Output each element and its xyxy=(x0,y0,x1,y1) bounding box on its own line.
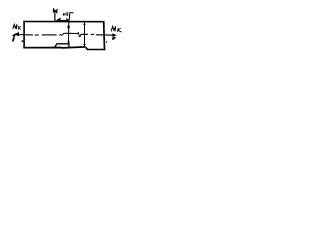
right torque arrow line xyxy=(105,34,114,36)
right end face xyxy=(103,21,106,50)
weld designation text xyxy=(63,12,68,16)
shaft top edge xyxy=(23,21,104,23)
groove dimension arrowhead left xyxy=(55,18,61,21)
left torque arrow line xyxy=(15,34,34,36)
tick near left face xyxy=(22,40,24,42)
diameter dimension arrowhead up xyxy=(83,22,86,25)
weld leader arrowhead onto bead xyxy=(67,41,70,44)
left torque arrowhead 1 xyxy=(14,32,19,36)
left torque arrowhead 2 xyxy=(12,34,16,37)
right torque curved tail xyxy=(112,37,116,40)
groove dimension arrowhead right xyxy=(66,18,70,21)
flag staff xyxy=(54,13,56,22)
break squiggle 2 xyxy=(78,32,81,36)
centerline (axis) xyxy=(35,34,39,36)
weld leader shelf xyxy=(70,12,74,14)
groove width dimension line xyxy=(58,19,68,21)
speck right of face xyxy=(106,41,107,42)
left end face xyxy=(23,21,25,49)
break squiggle 1 xyxy=(59,33,64,35)
weld leader vertical through joint xyxy=(69,13,70,43)
label Mk left xyxy=(13,24,21,29)
diameter dimension arrowhead down xyxy=(83,44,86,47)
label Mk right xyxy=(111,26,121,32)
weld flag symbol xyxy=(53,9,57,13)
weld bead on bottom xyxy=(54,44,69,48)
diameter dimension line in right section xyxy=(84,23,86,46)
shaft bottom edge xyxy=(23,47,85,48)
right torque arrowhead xyxy=(112,33,116,37)
left torque curved tail xyxy=(12,36,14,42)
blob on leader line xyxy=(68,26,70,29)
bottom step down to right section xyxy=(86,47,106,49)
